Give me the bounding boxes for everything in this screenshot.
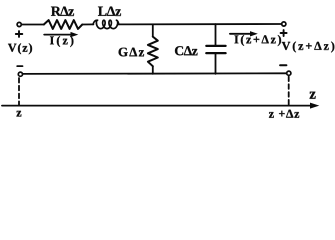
- terminal bottom-left: [18, 72, 22, 76]
- wire: inductor to top-right terminal: [119, 23, 282, 25]
- label z+Δz (right tick): [269, 110, 299, 118]
- current arrow I(z) shaft: [44, 34, 71, 36]
- label I(z+Δz): [235, 35, 282, 46]
- label I(z): [50, 36, 73, 47]
- wire: G branch lower: [152, 66, 154, 74]
- label z (left tick): [17, 111, 22, 117]
- z axis arrowhead: [310, 103, 319, 109]
- terminal top-right: [282, 22, 286, 26]
- wire: resistor to inductor: [82, 23, 93, 25]
- wire: top-left terminal to resistor R1: [22, 24, 44, 26]
- terminal top-left: [17, 22, 21, 26]
- inductor LΔz (series): [93, 20, 119, 28]
- label z (axis): [310, 92, 316, 99]
- label LΔz: [98, 7, 121, 16]
- current arrow I(z+Δz) head: [250, 31, 258, 36]
- capacitor CΔz top plate: [206, 45, 225, 47]
- terminal bottom-right: [287, 71, 291, 75]
- plus sign at V(z+Δz): [281, 30, 287, 36]
- wire: C branch upper stem: [215, 24, 217, 45]
- label RΔz: [51, 7, 74, 16]
- current arrow I(z) head: [71, 32, 79, 37]
- current arrow I(z+Δz) shaft: [230, 33, 251, 35]
- resistor GΔz (shunt conductance, vertical zigzag): [148, 37, 158, 67]
- label GΔz: [119, 48, 144, 57]
- label V(z+Δz): [282, 42, 335, 53]
- dashed reference line at node z+Δz: [288, 77, 290, 106]
- dashed reference line at node z: [18, 78, 20, 106]
- minus sign bottom-left: [17, 65, 22, 67]
- resistor RΔz (series): [44, 20, 83, 29]
- label CΔz: [175, 46, 198, 55]
- label V(z): [8, 43, 32, 54]
- wire: G branch upper (node at top wire): [152, 24, 154, 36]
- plus sign at V(z): [16, 31, 22, 37]
- minus sign bottom-right: [280, 64, 286, 66]
- wire: C branch lower stem: [215, 54, 217, 74]
- capacitor CΔz bottom plate: [206, 52, 225, 54]
- z axis line: [2, 105, 311, 107]
- wire: bottom return conductor: [23, 72, 287, 75]
